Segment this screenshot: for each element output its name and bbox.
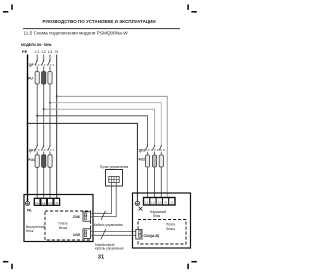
wire control cable to panel (upper): [91, 186, 112, 213]
wire L1 branch horizontal then down: [37, 116, 147, 146]
wire inter-unit cable (lower): [91, 234, 137, 236]
svg-text:L1: L1: [36, 201, 40, 205]
indoor control board (dashed): [45, 211, 91, 240]
connector CN5: [73, 229, 91, 239]
wire L2 right segments: [154, 152, 156, 198]
outdoor control board (dashed): [138, 220, 186, 245]
wire PE vertical: [27, 55, 29, 202]
node junction N branch: [56, 95, 58, 97]
crop mark top-left: [3, 4, 13, 12]
svg-text:блока: блока: [166, 227, 175, 231]
svg-text:МОДЕЛИ 3N~ 50Hz: МОДЕЛИ 3N~ 50Hz: [21, 43, 52, 47]
svg-text:FU1: FU1: [29, 158, 36, 162]
breaker QF (main): [29, 60, 54, 67]
svg-text:CN4(A,B): CN4(A,B): [144, 234, 161, 238]
svg-text:PE: PE: [22, 49, 28, 54]
svg-text:CN5: CN5: [73, 233, 80, 237]
crop mark bottom-right: [187, 261, 196, 269]
wire L2 branch horizontal then down: [44, 109, 155, 145]
svg-text:L2: L2: [42, 201, 46, 205]
svg-text:L3: L3: [48, 49, 53, 54]
fuse FU (main, three): [28, 72, 52, 85]
cable slash mark inter-unit cable: [101, 229, 106, 240]
svg-text:РУКОВОДСТВО ПО УСТАНОВКЕ И ЭКС: РУКОВОДСТВО ПО УСТАНОВКЕ И ЭКСПЛУАТАЦИИ: [42, 19, 155, 24]
svg-text:N: N: [56, 201, 58, 205]
svg-text:CN6: CN6: [73, 215, 80, 219]
svg-text:S: S: [171, 200, 173, 204]
svg-text:L1: L1: [35, 49, 40, 54]
svg-text:кабель управления: кабель управления: [95, 247, 124, 251]
svg-text:11.5 Схема подключения модели: 11.5 Схема подключения модели PSMQ08Na-W: [24, 30, 129, 35]
svg-text:QF2: QF2: [139, 148, 146, 152]
svg-text:Плата: Плата: [58, 222, 67, 226]
connector COM(A,B) outdoor: [136, 229, 160, 239]
outdoor unit box: [133, 193, 191, 248]
connector CN6: [73, 212, 91, 221]
svg-text:Кабель управления: Кабель управления: [94, 223, 123, 227]
crop mark top-right: [187, 4, 196, 12]
wire L3 branch horizontal then down: [50, 103, 161, 146]
cable slash mark control cable: [101, 211, 106, 220]
crop mark bottom-left: [3, 261, 13, 269]
wire L1 right segments: [147, 152, 149, 198]
wire L3 segments: [49, 55, 51, 199]
svg-text:PE: PE: [27, 209, 32, 213]
svg-text:N: N: [165, 200, 167, 204]
svg-text:L1: L1: [145, 200, 149, 204]
svg-text:Плата: Плата: [166, 223, 175, 227]
terminal L1 indoor: [34, 198, 40, 205]
svg-text:FU: FU: [28, 77, 33, 81]
svg-text:блок: блок: [153, 214, 161, 218]
fuse FU2 (outdoor feed, three): [139, 155, 164, 167]
terminal N indoor: [54, 198, 60, 205]
outdoor ground symbol: [135, 201, 139, 205]
node junction L2 branch: [43, 108, 45, 110]
svg-text:Пульт управления: Пульт управления: [100, 165, 129, 169]
wire control cable to panel (lower): [91, 186, 117, 217]
svg-text:QF: QF: [29, 63, 35, 67]
wire N vertical: [56, 55, 58, 199]
ground X mark: [139, 207, 143, 211]
wire inter-unit cable (upper): [91, 231, 137, 233]
terminal L3 indoor: [47, 198, 53, 205]
wired controller connector U1: [109, 177, 119, 183]
svg-text:31: 31: [98, 254, 105, 260]
terminal L2 indoor: [41, 198, 47, 205]
breaker QF2 (outdoor feed): [139, 145, 165, 152]
header rule: [23, 27, 180, 30]
node junction PE branch: [27, 122, 29, 124]
svg-text:L2: L2: [151, 200, 155, 204]
breaker QF1 (indoor feed): [29, 145, 54, 152]
svg-text:N: N: [55, 49, 58, 54]
svg-text:L3: L3: [48, 201, 52, 205]
wire L2 segments: [43, 55, 45, 199]
wire N branch horizontal then down: [57, 96, 168, 198]
outdoor terminal strip: [144, 198, 176, 206]
svg-text:FU2: FU2: [139, 157, 146, 161]
indoor ground symbol: [25, 201, 29, 205]
wire L1 segments: [36, 55, 38, 199]
fuse FU1 (indoor feed, three): [29, 155, 53, 168]
svg-text:L3: L3: [158, 200, 162, 204]
wire L3 right segments: [160, 152, 162, 198]
wired controller box: [106, 170, 123, 187]
svg-text:блока: блока: [59, 226, 68, 230]
wire PE branch horizontal then down to outdoor ground: [28, 123, 138, 201]
node junction L3 branch: [49, 102, 51, 104]
svg-text:QF1: QF1: [29, 148, 36, 152]
node junction L1 branch: [36, 115, 38, 117]
svg-text:L2: L2: [41, 49, 46, 54]
svg-text:блок: блок: [26, 229, 34, 233]
wire controller leads: [112, 183, 117, 187]
indoor unit box: [24, 195, 93, 242]
